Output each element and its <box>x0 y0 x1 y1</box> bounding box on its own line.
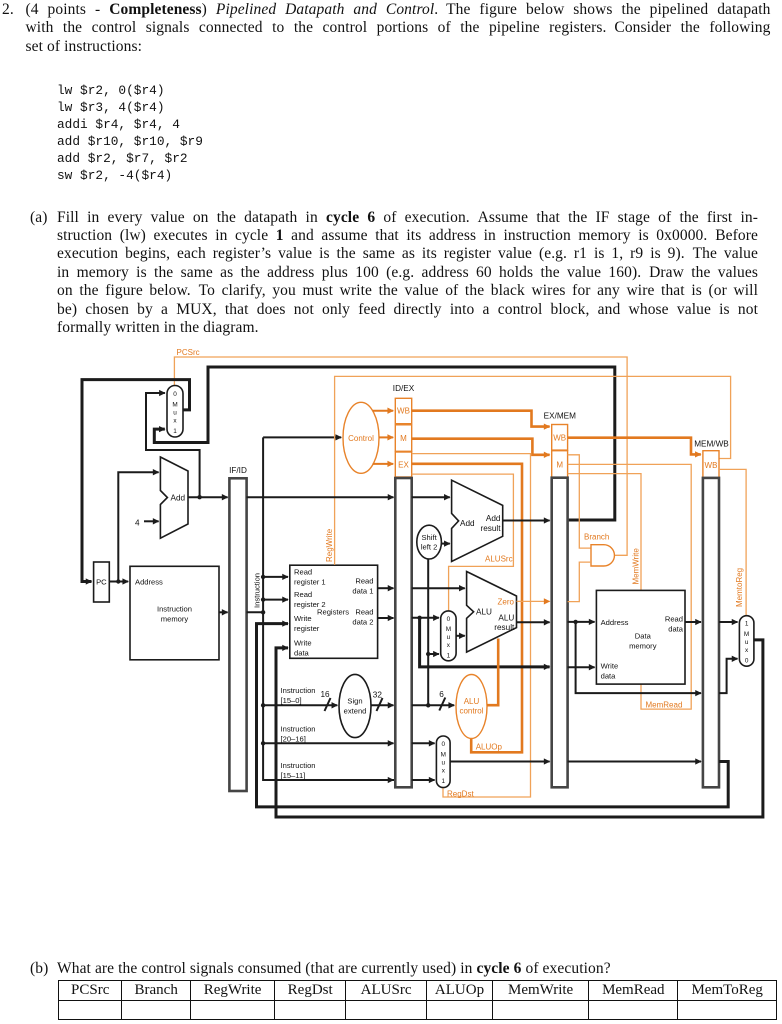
svg-text:M: M <box>441 752 446 759</box>
wire opcode to Control <box>263 436 341 438</box>
svg-text:Add: Add <box>486 514 501 523</box>
wire M control ID/EX to EX/MEM (orange thick) <box>412 439 550 455</box>
node Read data 2 junction <box>417 616 421 620</box>
label Instruction [20-16] <box>281 725 316 744</box>
svg-text:[15–0]: [15–0] <box>281 696 302 705</box>
register ID/EX control boxes WB M EX <box>395 398 411 477</box>
wire ALUSrc mux output to ALU <box>456 635 465 637</box>
label RegDst <box>447 789 474 798</box>
svg-text:Instruction: Instruction <box>253 573 262 608</box>
svg-text:M: M <box>172 402 177 409</box>
svg-text:ID/EX: ID/EX <box>393 384 415 393</box>
adder Add (PC+4) <box>160 457 188 538</box>
label Instruction (vertical, IF stage) <box>253 573 262 608</box>
control signal table <box>58 980 777 1020</box>
wire PC to Add input (PC+4 path) <box>118 472 158 581</box>
svg-text:result: result <box>494 623 515 632</box>
svg-text:M: M <box>400 434 407 443</box>
wire ALU control output to ALU <box>487 639 498 706</box>
label EX/MEM <box>544 412 576 421</box>
svg-text:Branch: Branch <box>584 533 609 542</box>
label IF/ID <box>229 466 247 475</box>
label PCSrc <box>177 348 200 357</box>
svg-text:Read: Read <box>665 614 683 623</box>
register EX/MEM <box>552 478 568 788</box>
wire ALU result to EX/MEM <box>517 621 550 623</box>
wire instruction fan-out trunk <box>247 437 395 780</box>
svg-text:data: data <box>601 672 617 681</box>
wire MemtoReg control to mux <box>719 469 746 615</box>
svg-text:Data: Data <box>635 632 652 641</box>
svg-text:M: M <box>556 460 563 469</box>
wire shift left 2 to branch adder <box>441 543 449 545</box>
wire Zero to EX/MEM (orange) <box>517 600 550 602</box>
svg-text:0: 0 <box>442 741 446 748</box>
label ALUOp <box>476 743 503 752</box>
label MEM/WB <box>694 440 729 449</box>
svg-text:Write: Write <box>294 639 312 648</box>
wire Read data MEM/WB to mux input 1 <box>719 621 738 623</box>
wire Control to ID/EX M <box>379 436 393 438</box>
wire RegDst control (EX box to RegDst mux) <box>412 454 531 797</box>
wire Read data 2 bypass to EX/MEM (write data) <box>420 618 550 667</box>
svg-text:Address: Address <box>601 618 629 627</box>
wire instruction to Read register 1 <box>263 576 288 578</box>
wire Read data 2 to ID/EX <box>378 617 394 619</box>
register ID/EX <box>395 478 411 787</box>
wire Read data 1 ID/EX to ALU <box>412 587 465 589</box>
wire ALU result bypass to MEM/WB <box>576 622 701 693</box>
label bus width 16 <box>321 690 331 711</box>
shifter Shift left 2 <box>417 525 442 559</box>
wire ALUSrc control (EX box to ALUSrc mux) <box>412 474 514 610</box>
wire write data EX/MEM to data memory <box>568 666 595 668</box>
node immediate junctions <box>426 652 430 708</box>
top paragraph <box>26 1 771 56</box>
register IF/ID <box>229 478 246 791</box>
label Branch <box>584 533 609 542</box>
svg-text:u: u <box>745 639 749 646</box>
svg-text:1: 1 <box>442 778 446 785</box>
code listing <box>57 82 203 184</box>
register PC <box>94 562 110 602</box>
wire WB control ID/EX to EX/MEM (orange thick) <box>412 411 550 427</box>
svg-text:register 1: register 1 <box>294 578 326 587</box>
label RegWrite (vertical) <box>325 528 334 562</box>
label bus width 32 <box>373 691 383 712</box>
label bus width 6 <box>439 690 445 711</box>
wire instruction[15-11] ID/EX to RegDst mux input 1 <box>412 779 435 781</box>
svg-text:WB: WB <box>397 407 410 416</box>
svg-text:0: 0 <box>447 616 451 623</box>
svg-text:data: data <box>294 649 310 658</box>
wire data memory Read data to MEM/WB <box>685 621 701 623</box>
svg-text:MemWrite: MemWrite <box>632 548 641 585</box>
wire PC+4 ID/EX to branch adder <box>412 496 450 498</box>
mux M4 (MemtoReg mux) <box>739 616 754 667</box>
part (b) text <box>57 960 611 978</box>
svg-text:u: u <box>447 634 451 641</box>
svg-text:Write: Write <box>294 614 312 623</box>
wire immediate ID/EX to ALU control <box>412 704 455 706</box>
svg-text:data: data <box>668 624 684 633</box>
mux M2 (ALUSrc mux) <box>441 611 456 661</box>
alu control unit ALU control <box>456 675 487 739</box>
wire instruction[15-0] to sign extend <box>263 704 337 706</box>
svg-text:RegDst: RegDst <box>447 789 474 798</box>
wire RegWrite (MEM/WB WB back to Registers, orange) <box>335 376 731 565</box>
wire Read data 2 ID/EX to ALUSrc mux input 0 <box>412 617 439 619</box>
svg-text:MemRead: MemRead <box>646 701 683 710</box>
svg-text:data 1: data 1 <box>352 587 373 596</box>
label ID/EX <box>393 384 415 393</box>
svg-text:Read: Read <box>355 577 373 586</box>
label MemtoReg (vertical) <box>735 568 744 607</box>
svg-text:Zero: Zero <box>498 597 515 606</box>
svg-text:Registers: Registers <box>317 608 349 617</box>
wire instruction[15-11] arrow into ID/EX <box>380 779 394 781</box>
svg-text:Write: Write <box>601 662 619 671</box>
mux M1 (PC source mux) <box>167 386 183 438</box>
wire instruction memory output to IF/ID <box>219 611 228 613</box>
svg-text:Read: Read <box>355 608 373 617</box>
svg-text:MEM/WB: MEM/WB <box>694 440 729 449</box>
wire PCSrc (orange, AND gate output to PC mux select) <box>174 357 627 555</box>
wire ALU result EX/MEM to data memory Address <box>568 621 595 623</box>
svg-text:register: register <box>294 624 320 633</box>
svg-text:Instruction: Instruction <box>281 761 316 770</box>
wire PC mux output to PC <box>82 380 190 582</box>
svg-text:[20–16]: [20–16] <box>281 735 306 744</box>
svg-text:[15–11]: [15–11] <box>281 771 306 780</box>
node instruction junctions <box>261 575 265 746</box>
sign extender Sign extend <box>339 674 371 737</box>
svg-text:WB: WB <box>705 461 718 470</box>
svg-text:0: 0 <box>745 658 749 665</box>
wire Zero EX/MEM to AND gate <box>568 562 591 602</box>
part (a) paragraph <box>57 209 758 338</box>
svg-text:memory: memory <box>161 615 189 624</box>
wire constant 4 to Add <box>144 520 159 522</box>
svg-text:RegWrite: RegWrite <box>325 528 334 562</box>
svg-text:32: 32 <box>373 691 383 700</box>
mux M3 (RegDst mux) <box>436 736 450 788</box>
memory Instruction memory <box>130 566 219 660</box>
svg-text:Add: Add <box>171 494 186 503</box>
svg-text:u: u <box>173 410 177 417</box>
wire PC+4 to PC mux input 0 <box>146 393 200 497</box>
adder Add (branch target) <box>452 480 503 561</box>
register file Registers <box>290 565 378 658</box>
svg-text:EX/MEM: EX/MEM <box>544 412 576 421</box>
svg-text:Add: Add <box>460 519 475 528</box>
node ALU result junction <box>573 620 577 624</box>
svg-text:M: M <box>446 626 451 633</box>
node Add output branch junction <box>197 495 201 499</box>
wire Read data 1 to ID/EX <box>378 587 394 589</box>
svg-text:EX: EX <box>398 460 409 469</box>
wire WB control EX/MEM to MEM/WB (orange thick) <box>568 438 701 455</box>
label MemRead <box>646 701 683 710</box>
svg-text:u: u <box>442 760 446 767</box>
wire RegDst mux output to EX/MEM (write register number) <box>450 761 549 763</box>
svg-text:1: 1 <box>745 621 749 628</box>
svg-text:Instruction: Instruction <box>281 686 316 695</box>
wire PC+4 IF/ID to ID/EX <box>247 496 394 498</box>
wire write-back data loop (mux output to Registers Write data) <box>276 640 763 817</box>
svg-text:ALU: ALU <box>498 614 514 623</box>
node PC output junction <box>116 579 120 583</box>
wire Control to ID/EX EX <box>373 463 394 465</box>
gate AND (branch and zero) <box>591 545 614 566</box>
wire write register number EX/MEM to MEM/WB <box>568 761 701 763</box>
svg-text:Sign: Sign <box>347 697 362 706</box>
wire MemWrite control to data memory <box>568 474 641 590</box>
label ALUSrc <box>485 555 513 564</box>
svg-text:MemtoReg: MemtoReg <box>735 568 744 607</box>
part (a) label <box>30 209 48 227</box>
wire branch adder output to EX/MEM <box>503 520 550 522</box>
svg-text:16: 16 <box>321 690 331 699</box>
wire write register number loop (MEM/WB to Registers Write register) <box>257 624 729 807</box>
svg-text:left 2: left 2 <box>421 543 437 552</box>
svg-text:Shift: Shift <box>421 533 437 542</box>
svg-text:Read: Read <box>294 590 312 599</box>
register EX/MEM control boxes WB M <box>552 425 568 478</box>
svg-text:Address: Address <box>135 578 163 587</box>
item number 2. <box>2 1 14 19</box>
svg-text:Instruction: Instruction <box>157 605 192 614</box>
svg-text:WB: WB <box>553 433 566 442</box>
part (b) label <box>30 960 48 978</box>
svg-text:1: 1 <box>173 428 177 435</box>
svg-text:4: 4 <box>135 519 140 528</box>
memory Data memory <box>596 590 685 684</box>
wire instruction to Read register 2 <box>263 599 288 601</box>
svg-text:6: 6 <box>439 690 444 699</box>
svg-text:result: result <box>480 524 501 533</box>
svg-text:data 2: data 2 <box>352 618 373 627</box>
svg-text:ALU: ALU <box>464 697 480 706</box>
svg-text:extend: extend <box>344 707 367 716</box>
wire sign extend output to ID/EX <box>371 704 394 706</box>
wire PC output to instruction memory Address <box>109 581 128 583</box>
wire branch target (EX/MEM to PC mux input 1, thick) <box>154 367 615 520</box>
wire immediate trunk (up to shift left 2 and ALUSrc mux) <box>428 559 439 705</box>
svg-text:0: 0 <box>173 391 177 398</box>
label Instruction [15-0] <box>281 686 316 705</box>
svg-text:PCSrc: PCSrc <box>177 348 200 357</box>
wire instruction[20-16] to ID/EX <box>263 742 393 744</box>
svg-text:Control: Control <box>348 434 374 443</box>
svg-text:ALUSrc: ALUSrc <box>485 555 513 564</box>
wire ALUOp control (EX box to ALU control) <box>412 464 522 753</box>
svg-text:1: 1 <box>447 653 451 660</box>
constant 4 <box>135 519 140 528</box>
svg-text:memory: memory <box>629 642 657 651</box>
svg-text:ALU: ALU <box>476 608 492 617</box>
control unit Control <box>343 402 379 473</box>
svg-text:IF/ID: IF/ID <box>229 466 247 475</box>
wire ALU result MEM/WB to mux input 0 <box>719 659 738 693</box>
svg-text:Instruction: Instruction <box>281 725 316 734</box>
wire Branch control to AND gate <box>568 455 591 548</box>
svg-text:M: M <box>744 631 749 638</box>
label Instruction [15-11] <box>281 761 316 780</box>
label Zero <box>498 597 515 606</box>
label MemWrite (vertical) <box>632 548 641 585</box>
svg-text:Read: Read <box>294 568 312 577</box>
alu ALU <box>467 572 517 653</box>
wire instruction[20-16] ID/EX to RegDst mux input 0 <box>412 742 435 744</box>
svg-text:ALUOp: ALUOp <box>476 743 503 752</box>
register MEM/WB control box WB <box>703 451 719 478</box>
wire Add output to IF/ID <box>188 496 228 498</box>
svg-text:control: control <box>459 707 483 716</box>
svg-text:PC: PC <box>96 578 107 587</box>
register MEM/WB <box>703 478 719 787</box>
wire Control to ID/EX WB <box>373 410 394 412</box>
wire MemRead control to data memory <box>568 464 692 709</box>
